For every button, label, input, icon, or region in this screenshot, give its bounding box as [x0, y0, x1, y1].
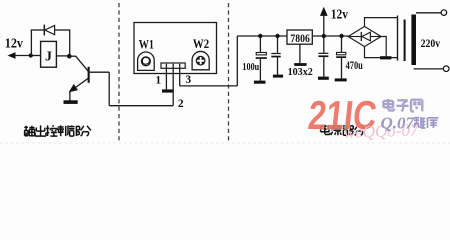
node B: collector junction dot: [67, 54, 72, 59]
diode D1 triangle: [45, 25, 55, 34]
bridge inner diode leads: [348, 36, 361, 38]
pin 2 lead: [172, 64, 174, 106]
wire: emitter to ground: [69, 92, 71, 101]
node rail dot 4: [339, 34, 343, 38]
label 输出控制部分: [24, 126, 28, 128]
capacitor C1 100u top lead: [259, 36, 261, 53]
dashed boundary line 1: [118, 3, 120, 141]
svg-text:W1: W1: [139, 37, 154, 51]
transistor Q1 emitter lead: [71, 78, 89, 91]
wire: 12v arrow to node: [9, 55, 32, 57]
wire: right riser down to collector node: [69, 30, 71, 56]
wire: pin 3 run right: [180, 85, 238, 87]
node A: junction dot 12v: [29, 53, 33, 57]
capacitor C2 ground bar: [273, 75, 283, 78]
transformer T1 core bar thick: [411, 15, 416, 66]
bridge inner diode triangle: [362, 32, 371, 41]
trimmer W2 screw: [196, 56, 206, 66]
capacitor C4 bottom lead: [341, 58, 343, 78]
transistor Q1 emitter arrow: [70, 85, 78, 92]
terminal circle top: [441, 10, 447, 16]
transformer T1 primary bottom lead: [414, 68, 444, 70]
bridge rectifier diamond: [348, 26, 381, 46]
svg-text:220v: 220v: [421, 36, 441, 50]
ground bar (emitter): [64, 100, 78, 104]
capacitor C3 bottom lead: [323, 57, 325, 77]
wire: bridge right to ground: [381, 37, 386, 57]
wire: base run to pin 2: [109, 105, 173, 107]
svg-text:3: 3: [185, 74, 191, 86]
7806 ground lead: [299, 44, 301, 63]
pin 1 lead: [165, 64, 167, 90]
wire: bridge bottom to transformer: [365, 47, 398, 58]
transistor Q1 collector lead: [69, 55, 76, 57]
trimmer W2 body: [192, 51, 209, 69]
dashed boundary line 2: [228, 3, 230, 141]
node rail dot 1: [258, 34, 262, 38]
wire: relay right to collector node: [56, 55, 69, 57]
capacitor C3 plate 1: [318, 53, 328, 54]
svg-text:J: J: [45, 50, 52, 65]
node rail dot 3: [322, 34, 326, 38]
module box: [134, 23, 217, 74]
capacitor C4 plus plate: [337, 52, 346, 54]
capacitor C1 ground bar: [254, 81, 266, 84]
ground bar (bridge): [380, 56, 391, 59]
trimmer W1 body: [138, 52, 155, 70]
wire: bridge top to transformer: [365, 18, 398, 27]
label 电源部分: [324, 125, 326, 134]
wire: top wire to diode anode: [31, 29, 45, 31]
wire: diode to right corner: [55, 29, 71, 31]
capacitor C3 103 top lead: [323, 36, 325, 53]
svg-text:Q.07: Q.07: [381, 114, 416, 133]
transformer T1 secondary wire: [397, 16, 399, 61]
capacitor C2 103 top lead: [277, 36, 279, 53]
svg-text:470u: 470u: [346, 58, 363, 72]
capacitor C3 ground bar: [318, 77, 329, 80]
wire: +6v rail left of 7806: [237, 35, 287, 37]
wire: base lead: [90, 71, 110, 73]
pin 1 terminal bar: [162, 89, 173, 92]
transformer T1 core bar thin: [404, 20, 406, 62]
watermark 电子网: [387, 99, 389, 110]
svg-text:12v: 12v: [331, 8, 348, 23]
terminal circle bottom: [443, 66, 449, 72]
capacitor C1 bottom lead: [259, 59, 261, 81]
wire: rail right of 7806: [312, 35, 348, 37]
7806 ground bar: [294, 63, 306, 66]
trimmer W1 screw: [142, 57, 151, 66]
capacitor C4 ground bar: [335, 78, 347, 81]
transistor Q1 base bar: [88, 67, 90, 83]
12v output arrow: [323, 15, 325, 37]
regulator 7806 box: [287, 30, 312, 44]
diode D1 flyback: cathode bar: [43, 25, 45, 36]
arrow head pointing left: [8, 53, 15, 59]
connector header: [161, 63, 185, 68]
capacitor C1 neg plate: [256, 57, 267, 59]
wire: riser to diode level: [30, 30, 32, 56]
wire: riser pin3 wire to rail: [236, 36, 238, 86]
capacitor C3 plate 2: [318, 55, 328, 57]
wire: base drop: [108, 72, 110, 106]
capacitor C4 neg plate: [336, 56, 346, 58]
pin 3 lead: [179, 64, 181, 86]
capacitor C2 plate 1: [271, 53, 280, 54]
svg-text:1: 1: [155, 74, 161, 86]
svg-text:2: 2: [178, 98, 184, 110]
wire: node to relay left: [31, 55, 40, 57]
transformer T1 primary top lead: [416, 12, 441, 14]
svg-text:100u: 100u: [242, 62, 259, 73]
relay J box: [41, 41, 57, 67]
svg-text:7806: 7806: [290, 33, 310, 45]
node rail dot 2: [275, 34, 279, 38]
capacitor C4 470u top lead: [341, 36, 343, 52]
svg-text:W2: W2: [193, 37, 209, 51]
svg-text:12v: 12v: [5, 36, 23, 51]
capacitor C1 plus plate: [256, 53, 266, 55]
bridge inner diode bar: [360, 32, 362, 41]
faint page rule bottom: [0, 142, 450, 144]
capacitor C2 plate 2: [271, 56, 280, 58]
capacitor C2 bottom lead: [277, 57, 279, 74]
svg-text:103x2: 103x2: [288, 66, 314, 78]
